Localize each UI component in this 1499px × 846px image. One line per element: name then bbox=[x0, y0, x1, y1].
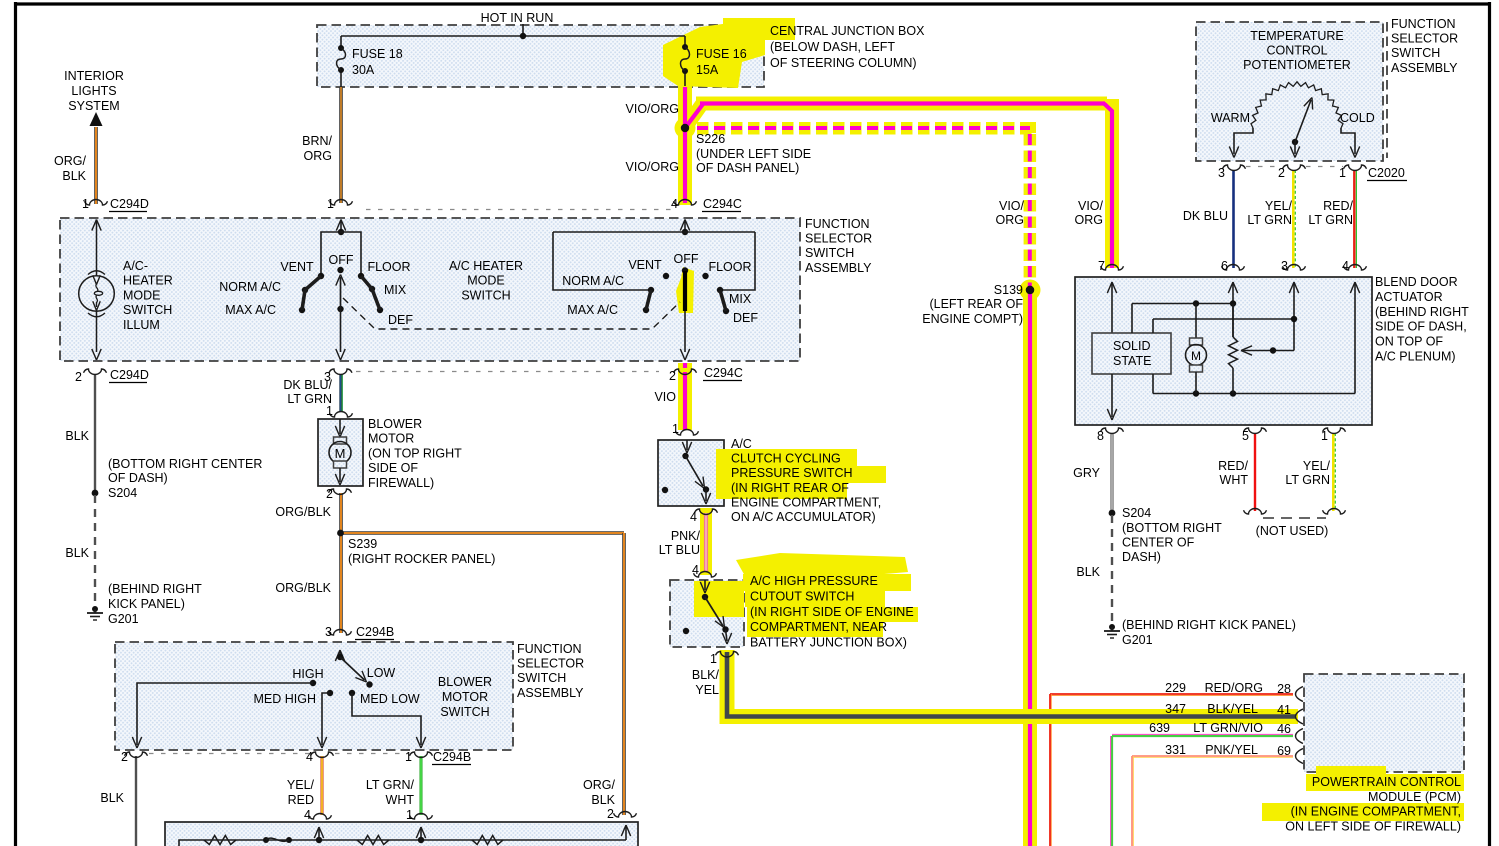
svg-text:(RIGHT ROCKER PANEL): (RIGHT ROCKER PANEL) bbox=[348, 552, 495, 566]
svg-text:2: 2 bbox=[669, 369, 676, 383]
svg-text:ENGINE COMPT): ENGINE COMPT) bbox=[922, 312, 1023, 326]
svg-text:SELECTOR: SELECTOR bbox=[805, 232, 872, 246]
svg-text:S239: S239 bbox=[348, 537, 377, 551]
svg-text:ORG/: ORG/ bbox=[54, 154, 86, 168]
svg-text:ON TOP OF: ON TOP OF bbox=[1375, 335, 1443, 349]
svg-text:C294C: C294C bbox=[703, 197, 742, 211]
svg-text:FUNCTION: FUNCTION bbox=[517, 642, 582, 656]
svg-text:NORM A/C: NORM A/C bbox=[219, 280, 281, 294]
svg-text:(LEFT REAR OF: (LEFT REAR OF bbox=[929, 297, 1023, 311]
svg-text:MIX: MIX bbox=[384, 283, 407, 297]
svg-text:CENTER OF: CENTER OF bbox=[1122, 536, 1195, 550]
svg-text:(IN ENGINE COMPARTMENT,: (IN ENGINE COMPARTMENT, bbox=[1291, 805, 1461, 819]
svg-text:BLK: BLK bbox=[65, 429, 89, 443]
svg-text:FUNCTION: FUNCTION bbox=[1391, 17, 1456, 31]
svg-text:RED/ORG: RED/ORG bbox=[1205, 681, 1263, 695]
svg-text:FUSE 18: FUSE 18 bbox=[352, 47, 403, 61]
svg-text:2: 2 bbox=[75, 370, 82, 384]
svg-text:1: 1 bbox=[672, 422, 679, 436]
svg-text:4: 4 bbox=[304, 808, 311, 822]
svg-text:ORG/BLK: ORG/BLK bbox=[275, 505, 331, 519]
svg-text:ASSEMBLY: ASSEMBLY bbox=[1391, 61, 1458, 75]
svg-text:BLK: BLK bbox=[65, 546, 89, 560]
svg-text:OF DASH): OF DASH) bbox=[108, 471, 168, 485]
svg-text:YEL/: YEL/ bbox=[287, 778, 315, 792]
svg-text:(BEHIND RIGHT: (BEHIND RIGHT bbox=[108, 582, 202, 596]
svg-text:SWITCH: SWITCH bbox=[123, 303, 172, 317]
svg-text:FUSE 16: FUSE 16 bbox=[696, 47, 747, 61]
svg-text:YEL/: YEL/ bbox=[1303, 459, 1331, 473]
svg-text:(IN RIGHT SIDE OF ENGINE: (IN RIGHT SIDE OF ENGINE bbox=[750, 605, 914, 619]
svg-text:OF DASH PANEL): OF DASH PANEL) bbox=[696, 161, 799, 175]
svg-text:A/C HEATER: A/C HEATER bbox=[449, 259, 523, 273]
svg-text:SYSTEM: SYSTEM bbox=[68, 99, 119, 113]
svg-text:HIGH: HIGH bbox=[292, 667, 323, 681]
svg-text:A/C: A/C bbox=[731, 437, 752, 451]
svg-text:A/C HIGH PRESSURE: A/C HIGH PRESSURE bbox=[750, 574, 878, 588]
svg-text:G201: G201 bbox=[1122, 633, 1153, 647]
svg-text:3: 3 bbox=[1218, 166, 1225, 180]
svg-text:5: 5 bbox=[1242, 429, 1249, 443]
svg-text:4: 4 bbox=[1342, 259, 1349, 273]
svg-text:30A: 30A bbox=[352, 63, 375, 77]
svg-text:(IN RIGHT REAR OF: (IN RIGHT REAR OF bbox=[731, 481, 849, 495]
svg-text:BRN/: BRN/ bbox=[302, 134, 332, 148]
svg-text:M: M bbox=[335, 446, 346, 461]
svg-text:1: 1 bbox=[1339, 166, 1346, 180]
svg-text:LT GRN: LT GRN bbox=[1247, 213, 1292, 227]
svg-text:CENTRAL JUNCTION BOX: CENTRAL JUNCTION BOX bbox=[770, 24, 925, 38]
svg-text:3: 3 bbox=[325, 625, 332, 639]
svg-text:ON A/C ACCUMULATOR): ON A/C ACCUMULATOR) bbox=[731, 510, 876, 524]
svg-text:C294C: C294C bbox=[704, 366, 743, 380]
svg-text:C294D: C294D bbox=[110, 197, 149, 211]
svg-text:RED/: RED/ bbox=[1218, 459, 1248, 473]
svg-text:ORG/: ORG/ bbox=[583, 778, 615, 792]
svg-text:S226: S226 bbox=[696, 132, 725, 146]
svg-text:41: 41 bbox=[1277, 703, 1291, 717]
svg-text:DK BLU/: DK BLU/ bbox=[283, 378, 332, 392]
svg-text:SWITCH: SWITCH bbox=[1391, 46, 1440, 60]
svg-text:FLOOR: FLOOR bbox=[708, 260, 751, 274]
svg-text:WHT: WHT bbox=[386, 793, 415, 807]
svg-text:1: 1 bbox=[406, 808, 413, 822]
svg-text:3: 3 bbox=[1281, 259, 1288, 273]
svg-text:SIDE OF: SIDE OF bbox=[368, 461, 418, 475]
svg-text:DEF: DEF bbox=[388, 313, 413, 327]
svg-text:S204: S204 bbox=[1122, 506, 1151, 520]
svg-text:VIO/: VIO/ bbox=[999, 199, 1025, 213]
svg-text:(BOTTOM RIGHT: (BOTTOM RIGHT bbox=[1122, 521, 1222, 535]
svg-text:BLK: BLK bbox=[62, 169, 86, 183]
svg-text:CUTOUT SWITCH: CUTOUT SWITCH bbox=[750, 589, 854, 603]
svg-text:639: 639 bbox=[1149, 721, 1170, 735]
svg-text:BATTERY JUNCTION BOX): BATTERY JUNCTION BOX) bbox=[750, 636, 907, 650]
svg-text:MAX A/C: MAX A/C bbox=[225, 303, 276, 317]
svg-text:VENT: VENT bbox=[280, 260, 314, 274]
svg-text:C294B: C294B bbox=[356, 625, 394, 639]
svg-text:ORG: ORG bbox=[996, 213, 1024, 227]
svg-text:C2020: C2020 bbox=[1368, 166, 1405, 180]
svg-text:229: 229 bbox=[1165, 681, 1186, 695]
svg-text:SWITCH: SWITCH bbox=[517, 671, 566, 685]
svg-text:(NOT USED): (NOT USED) bbox=[1256, 524, 1329, 538]
svg-text:SELECTOR: SELECTOR bbox=[1391, 32, 1458, 46]
svg-text:331: 331 bbox=[1165, 743, 1186, 757]
svg-text:8: 8 bbox=[1097, 429, 1104, 443]
svg-text:ASSEMBLY: ASSEMBLY bbox=[805, 261, 872, 275]
svg-text:69: 69 bbox=[1277, 744, 1291, 758]
svg-text:FUNCTION: FUNCTION bbox=[805, 217, 870, 231]
svg-text:2: 2 bbox=[121, 750, 128, 764]
svg-text:MODULE (PCM): MODULE (PCM) bbox=[1368, 790, 1461, 804]
svg-text:SELECTOR: SELECTOR bbox=[517, 657, 584, 671]
svg-text:OFF: OFF bbox=[674, 252, 699, 266]
svg-text:A/C-: A/C- bbox=[123, 259, 148, 273]
svg-text:MED HIGH: MED HIGH bbox=[254, 692, 317, 706]
svg-text:WARM: WARM bbox=[1211, 111, 1250, 125]
svg-text:KICK PANEL): KICK PANEL) bbox=[108, 597, 185, 611]
svg-text:VIO/ORG: VIO/ORG bbox=[626, 160, 679, 174]
svg-text:BLOWER: BLOWER bbox=[438, 675, 492, 689]
svg-text:S204: S204 bbox=[108, 486, 137, 500]
svg-text:BLK: BLK bbox=[591, 793, 615, 807]
svg-text:LIGHTS: LIGHTS bbox=[71, 84, 116, 98]
svg-text:MODE: MODE bbox=[467, 274, 505, 288]
svg-text:4: 4 bbox=[306, 750, 313, 764]
svg-text:COMPARTMENT, NEAR: COMPARTMENT, NEAR bbox=[750, 620, 887, 634]
svg-text:SIDE OF DASH,: SIDE OF DASH, bbox=[1375, 320, 1467, 334]
svg-text:ASSEMBLY: ASSEMBLY bbox=[517, 686, 584, 700]
svg-text:C294B: C294B bbox=[433, 750, 471, 764]
svg-text:(BEHIND RIGHT: (BEHIND RIGHT bbox=[1375, 305, 1469, 319]
svg-text:CLUTCH CYCLING: CLUTCH CYCLING bbox=[731, 452, 841, 466]
svg-text:HEATER: HEATER bbox=[123, 274, 173, 288]
svg-text:FIREWALL): FIREWALL) bbox=[368, 476, 434, 490]
svg-text:(ON TOP RIGHT: (ON TOP RIGHT bbox=[368, 446, 462, 460]
svg-text:CONTROL: CONTROL bbox=[1266, 44, 1327, 58]
svg-text:DEF: DEF bbox=[733, 311, 758, 325]
svg-text:LT GRN: LT GRN bbox=[1285, 473, 1330, 487]
svg-text:LT BLU: LT BLU bbox=[659, 543, 700, 557]
svg-text:4: 4 bbox=[671, 197, 678, 211]
svg-text:LT GRN/: LT GRN/ bbox=[366, 778, 415, 792]
svg-text:OF STEERING COLUMN): OF STEERING COLUMN) bbox=[770, 56, 917, 70]
svg-text:INTERIOR: INTERIOR bbox=[64, 69, 124, 83]
svg-text:MAX A/C: MAX A/C bbox=[567, 303, 618, 317]
svg-text:SOLID: SOLID bbox=[1113, 339, 1151, 353]
svg-text:(BELOW DASH, LEFT: (BELOW DASH, LEFT bbox=[770, 40, 895, 54]
svg-text:ORG: ORG bbox=[304, 149, 332, 163]
svg-text:1: 1 bbox=[405, 750, 412, 764]
svg-text:ORG/BLK: ORG/BLK bbox=[275, 581, 331, 595]
svg-text:PNK/YEL: PNK/YEL bbox=[1205, 743, 1258, 757]
svg-text:(BEHIND RIGHT KICK PANEL): (BEHIND RIGHT KICK PANEL) bbox=[1122, 618, 1296, 632]
svg-text:LT GRN: LT GRN bbox=[1308, 213, 1353, 227]
svg-text:FLOOR: FLOOR bbox=[367, 260, 410, 274]
svg-text:MIX: MIX bbox=[729, 292, 752, 306]
svg-text:MED LOW: MED LOW bbox=[360, 692, 420, 706]
svg-text:LT GRN/VIO: LT GRN/VIO bbox=[1193, 721, 1263, 735]
svg-text:2: 2 bbox=[607, 807, 614, 821]
svg-text:2: 2 bbox=[326, 487, 333, 501]
svg-text:BLK: BLK bbox=[1076, 565, 1100, 579]
svg-text:YEL/: YEL/ bbox=[1265, 199, 1293, 213]
svg-text:1: 1 bbox=[82, 197, 89, 211]
svg-text:ORG: ORG bbox=[1075, 213, 1103, 227]
svg-text:2: 2 bbox=[1278, 166, 1285, 180]
svg-text:GRY: GRY bbox=[1073, 466, 1101, 480]
svg-text:6: 6 bbox=[1221, 259, 1228, 273]
svg-text:OFF: OFF bbox=[329, 253, 354, 267]
svg-text:MODE: MODE bbox=[123, 288, 161, 302]
svg-text:HOT IN RUN: HOT IN RUN bbox=[481, 11, 554, 25]
svg-text:NORM A/C: NORM A/C bbox=[562, 274, 624, 288]
svg-text:COLD: COLD bbox=[1340, 111, 1375, 125]
svg-text:SWITCH: SWITCH bbox=[461, 288, 510, 302]
svg-text:BLK/YEL: BLK/YEL bbox=[1207, 702, 1258, 716]
svg-text:POTENTIOMETER: POTENTIOMETER bbox=[1243, 58, 1351, 72]
svg-text:PNK/: PNK/ bbox=[671, 529, 701, 543]
svg-text:M: M bbox=[1191, 349, 1201, 363]
svg-text:PRESSURE SWITCH: PRESSURE SWITCH bbox=[731, 466, 853, 480]
svg-text:ACTUATOR: ACTUATOR bbox=[1375, 290, 1443, 304]
svg-text:BLEND DOOR: BLEND DOOR bbox=[1375, 275, 1458, 289]
svg-text:1: 1 bbox=[1321, 429, 1328, 443]
svg-text:347: 347 bbox=[1165, 702, 1186, 716]
svg-text:ENGINE COMPARTMENT,: ENGINE COMPARTMENT, bbox=[731, 495, 881, 509]
svg-text:1: 1 bbox=[326, 404, 333, 418]
svg-text:ON LEFT SIDE OF FIREWALL): ON LEFT SIDE OF FIREWALL) bbox=[1285, 819, 1461, 833]
svg-text:4: 4 bbox=[692, 563, 699, 577]
svg-text:28: 28 bbox=[1277, 682, 1291, 696]
svg-text:LOW: LOW bbox=[367, 666, 396, 680]
svg-text:YEL: YEL bbox=[695, 683, 719, 697]
svg-text:C294D: C294D bbox=[110, 368, 149, 382]
svg-text:15A: 15A bbox=[696, 63, 719, 77]
svg-text:1: 1 bbox=[710, 652, 717, 666]
svg-text:RED/: RED/ bbox=[1323, 199, 1353, 213]
svg-text:MOTOR: MOTOR bbox=[368, 432, 414, 446]
svg-text:VIO/ORG: VIO/ORG bbox=[626, 102, 679, 116]
svg-text:STATE: STATE bbox=[1113, 354, 1151, 368]
svg-text:DK BLU: DK BLU bbox=[1183, 209, 1228, 223]
svg-text:RED: RED bbox=[288, 793, 314, 807]
svg-text:WHT: WHT bbox=[1220, 473, 1249, 487]
svg-text:ILLUM: ILLUM bbox=[123, 318, 160, 332]
svg-text:SWITCH: SWITCH bbox=[805, 246, 854, 260]
svg-text:46: 46 bbox=[1277, 722, 1291, 736]
svg-text:1: 1 bbox=[327, 197, 334, 211]
svg-text:VIO/: VIO/ bbox=[1078, 199, 1104, 213]
svg-text:VIO: VIO bbox=[654, 390, 676, 404]
svg-text:S139: S139 bbox=[994, 283, 1023, 297]
svg-text:G201: G201 bbox=[108, 612, 139, 626]
svg-text:VENT: VENT bbox=[628, 258, 662, 272]
svg-text:A/C PLENUM): A/C PLENUM) bbox=[1375, 350, 1456, 364]
svg-text:4: 4 bbox=[690, 510, 697, 524]
svg-text:(UNDER LEFT SIDE: (UNDER LEFT SIDE bbox=[696, 147, 811, 161]
svg-text:TEMPERATURE: TEMPERATURE bbox=[1250, 29, 1344, 43]
svg-text:DASH): DASH) bbox=[1122, 550, 1161, 564]
svg-text:BLK: BLK bbox=[100, 791, 124, 805]
svg-text:BLK/: BLK/ bbox=[692, 668, 720, 682]
svg-text:MOTOR: MOTOR bbox=[442, 690, 488, 704]
svg-text:(BOTTOM RIGHT CENTER: (BOTTOM RIGHT CENTER bbox=[108, 457, 262, 471]
svg-text:POWERTRAIN CONTROL: POWERTRAIN CONTROL bbox=[1312, 775, 1461, 789]
svg-text:SWITCH: SWITCH bbox=[440, 705, 489, 719]
svg-text:7: 7 bbox=[1098, 259, 1105, 273]
svg-text:BLOWER: BLOWER bbox=[368, 417, 422, 431]
